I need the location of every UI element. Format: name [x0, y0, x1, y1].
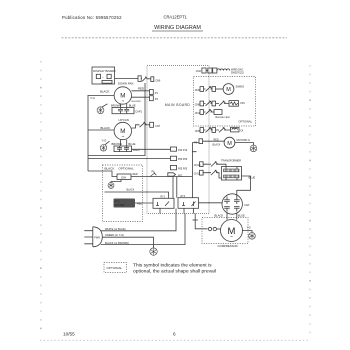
connector column P10	[171, 147, 188, 152]
connector P1	[150, 90, 159, 95]
svg-text:RED: RED	[214, 139, 219, 142]
svg-text:←: ←	[102, 75, 105, 79]
wire BLACK power	[101, 214, 185, 245]
switch S7	[206, 127, 213, 132]
switch S1 on display wire	[142, 77, 147, 82]
svg-text:MAIN BOARD: MAIN BOARD	[165, 103, 190, 107]
ground G2 up fan	[100, 141, 109, 151]
title underline	[152, 30, 203, 32]
svg-text:SWING: SWING	[236, 85, 245, 89]
connector CN10	[194, 162, 226, 167]
switch S9	[211, 161, 218, 166]
svg-text:P1: P1	[155, 91, 159, 95]
connector column P5	[171, 165, 188, 170]
motor M4 vent	[224, 137, 250, 148]
switch S2 on CN7 wire	[140, 122, 147, 127]
svg-text:COMPRESSOR: COMPRESSOR	[218, 244, 238, 248]
connector P3 row	[194, 139, 224, 145]
header model number	[164, 14, 188, 19]
svg-text:RED: RED	[138, 86, 144, 90]
wire BLUE transformer to cap	[237, 176, 256, 197]
footer page number	[173, 331, 176, 336]
svg-text:BLACK: BLACK	[100, 89, 110, 93]
wire RED ptc to RY1	[135, 202, 153, 205]
svg-text:~: ~	[230, 234, 233, 240]
display board U1	[92, 67, 115, 84]
wire BLACK up fan	[88, 126, 114, 130]
legend text	[133, 263, 216, 275]
svg-text:CAP: CAP	[244, 203, 250, 207]
connector P2	[150, 96, 159, 101]
wire display board to CN6	[115, 78, 142, 80]
wire Y-G compressor to ground	[243, 226, 253, 232]
svg-text:10/55: 10/55	[63, 331, 75, 336]
PTC heater	[114, 199, 136, 208]
connector CN8b	[212, 101, 229, 106]
label RED BLACK	[213, 139, 221, 147]
svg-text:optional, the actual shape sha: optional, the actual shape shall prevail	[133, 268, 216, 274]
wire black bus into ION	[88, 171, 117, 177]
svg-text:Y-G: Y-G	[247, 226, 251, 229]
wire WHITE power	[101, 209, 176, 232]
svg-text:Publication No: 5995570252: Publication No: 5995570252	[62, 15, 122, 20]
svg-text:WHITE (or BLUE): WHITE (or BLUE)	[105, 227, 126, 231]
svg-text:BROWN: BROWN	[111, 103, 121, 107]
title WIRING DIAGRAM	[154, 25, 201, 31]
svg-text:~: ~	[121, 98, 124, 103]
capacitor C1 box	[112, 108, 143, 114]
svg-text:UP FAN: UP FAN	[119, 118, 129, 122]
run capacitor C3	[222, 194, 250, 214]
svg-text:CN1: CN1	[195, 111, 201, 115]
svg-text:This symbol indicates the elem: This symbol indicates the element is	[133, 263, 212, 269]
wire RED down fan to P1	[132, 86, 150, 91]
svg-text:Y-G: Y-G	[102, 138, 108, 142]
svg-text:BLACK: BLACK	[215, 213, 224, 217]
svg-text:BLK/WHT: BLK/WHT	[132, 101, 142, 103]
svg-text:CN9: CN9	[195, 88, 201, 92]
svg-text:6: 6	[173, 331, 176, 336]
svg-text:OPTIONAL: OPTIONAL	[119, 167, 135, 171]
overload protector OL1	[208, 227, 220, 230]
wires motor M2 to capacitor C2	[121, 140, 127, 146]
svg-text:BLACK: BLACK	[213, 144, 221, 147]
svg-text:BLACK: BLACK	[127, 189, 135, 192]
svg-text:PWR: PWR	[94, 236, 100, 239]
svg-text:CN5: CN5	[195, 129, 201, 133]
svg-text:TRANSFORMER: TRANSFORMER	[221, 159, 241, 163]
header dashed rule	[62, 37, 288, 39]
wire cap to compressor left	[226, 213, 228, 220]
svg-text:BLACK (or BROWN): BLACK (or BROWN)	[105, 241, 129, 245]
svg-text:CN8: CN8	[195, 103, 201, 107]
relay RY2	[178, 195, 199, 214]
svg-text:HEATER: HEATER	[115, 204, 125, 207]
svg-text:Y-G: Y-G	[90, 96, 96, 100]
wires motor M1 to capacitor C1	[121, 104, 127, 108]
vertical wire P3 to relay	[192, 143, 199, 198]
connector CN6 on main board	[151, 77, 161, 83]
transformer T1	[221, 159, 242, 181]
connector CN1 row remote	[195, 110, 214, 115]
connector CN9b	[212, 87, 223, 92]
fan assembly enclosure	[88, 83, 145, 156]
svg-text:DI: DI	[241, 129, 244, 133]
compressor dashed box	[202, 218, 248, 244]
switch P6	[150, 171, 192, 177]
compressor motor M5	[221, 220, 243, 242]
svg-text:WIRE DIAG: WIRE DIAG	[231, 68, 243, 71]
switch S10	[211, 170, 218, 175]
ground G3 motor	[250, 145, 257, 152]
resistor R1 display	[229, 101, 245, 107]
ground G1 down fan	[97, 104, 107, 114]
motor M1 down fan	[114, 87, 131, 104]
wire BLACK ptc feed	[105, 189, 169, 199]
svg-text:OPTIONAL: OPTIONAL	[107, 266, 123, 270]
svg-text:GREEN (or Y-G): GREEN (or Y-G)	[105, 233, 124, 237]
wire GREEN power	[102, 233, 153, 248]
svg-text:BLACK: BLACK	[101, 126, 111, 130]
svg-text:DIS: DIS	[241, 101, 246, 105]
svg-text:M: M	[227, 141, 232, 147]
svg-text:DISPLAY BOARD: DISPLAY BOARD	[93, 69, 115, 73]
connector CN9 row	[195, 87, 212, 92]
svg-text:BLACK: BLACK	[105, 167, 115, 171]
wire RED ion to P6	[131, 173, 150, 177]
svg-text:OPTIONAL: OPTIONAL	[239, 120, 253, 124]
motor M2 up fan	[114, 122, 131, 139]
ground G4 compressor	[249, 233, 256, 240]
ground G6 power cord	[150, 248, 157, 255]
legend optional box	[104, 263, 127, 273]
connector CN4	[138, 76, 151, 82]
power cord plug P	[84, 227, 102, 247]
wire cap to compressor right	[236, 213, 238, 220]
svg-text:CN6: CN6	[155, 78, 161, 82]
svg-text:Remote input: Remote input	[216, 116, 231, 119]
wire BLACK down fan	[88, 89, 114, 171]
capacitor C2 box	[114, 146, 140, 152]
wire ORG down fan to P2	[131, 97, 149, 103]
svg-text:CAP1: CAP1	[135, 109, 142, 113]
connector column P9	[171, 156, 188, 161]
footer page date	[63, 331, 75, 336]
svg-text:RED: RED	[133, 173, 138, 176]
header publication number	[62, 15, 122, 20]
svg-text:~: ~	[121, 134, 124, 139]
svg-text:P05 P05: P05 P05	[178, 167, 188, 170]
svg-text:CRA12EPT1: CRA12EPT1	[164, 14, 188, 19]
motor M3 swing	[223, 84, 244, 95]
main board outline	[147, 66, 209, 214]
svg-text:ION: ION	[121, 175, 126, 179]
svg-text:Y-G: Y-G	[246, 138, 250, 142]
ground G5 ionizer	[108, 180, 121, 189]
page fold marks right	[309, 65, 311, 333]
svg-text:P02: P02	[178, 174, 183, 177]
page fold marks left	[40, 61, 42, 329]
wire RY2 to capacitor	[199, 202, 223, 204]
connector CN7	[150, 122, 161, 128]
optional dashed box right	[194, 77, 256, 127]
connector CN5b	[212, 128, 231, 133]
heater element box row4	[231, 127, 244, 132]
bottom dashed cut line	[40, 339, 310, 341]
connector column P2 arrow	[168, 173, 183, 199]
relay RY1	[153, 196, 174, 214]
svg-text:M: M	[226, 87, 231, 93]
svg-text:BROWN: BROWN	[112, 142, 122, 146]
svg-text:CN2: CN2	[196, 69, 202, 73]
svg-text:CN7: CN7	[155, 124, 161, 128]
svg-text:BLUE: BLUE	[129, 103, 136, 107]
svg-text:P10 P10: P10 P10	[178, 149, 188, 152]
remote input box	[214, 110, 230, 119]
wire up fan to CN7	[132, 125, 150, 128]
switch S3 swing row	[206, 86, 213, 91]
bus wires to connector column	[88, 149, 171, 158]
switch S6	[206, 109, 213, 114]
connector CN2 row top	[196, 68, 245, 75]
svg-text:P09 P09: P09 P09	[178, 158, 188, 161]
switch S4	[206, 101, 213, 106]
connector CN5 row	[195, 128, 212, 133]
ionizer optional dashed box	[103, 165, 143, 222]
label RED compressor feed	[193, 214, 208, 229]
svg-text:BLUE: BLUE	[128, 142, 135, 146]
connector CN11	[194, 170, 222, 178]
svg-text:DOWN FAN: DOWN FAN	[118, 81, 134, 85]
svg-text:P2: P2	[155, 97, 159, 101]
wire motor M4 to ground	[235, 143, 254, 145]
ionizer ION box	[117, 174, 131, 180]
switch S5	[219, 101, 226, 106]
svg-text:CAP2: CAP2	[133, 148, 140, 152]
svg-text:WIRING DIAGRAM: WIRING DIAGRAM	[154, 25, 201, 31]
switch S8	[219, 127, 226, 132]
connector CN8 row	[195, 101, 212, 106]
svg-text:5995570252: 5995570252	[231, 73, 244, 75]
svg-text:BLUE: BLUE	[238, 213, 245, 217]
